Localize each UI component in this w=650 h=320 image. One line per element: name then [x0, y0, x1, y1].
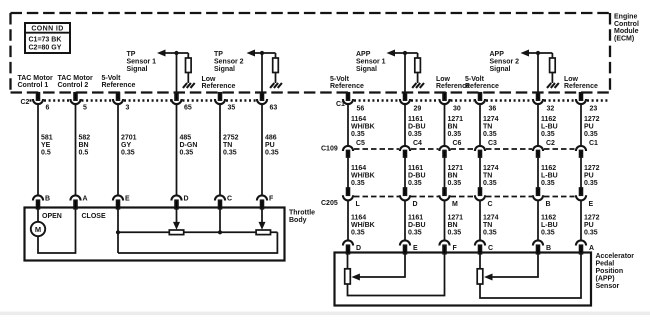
- APP sensor connector pin A: [576, 240, 594, 253]
- wire label 1272 PU 0.35 (lower): [584, 215, 600, 237]
- connector C205 pin D: [400, 188, 418, 208]
- svg-text:65: 65: [184, 105, 192, 112]
- svg-text:M: M: [452, 201, 458, 208]
- connector C205 pin C: [475, 188, 493, 208]
- connector C1 pin 32: [533, 93, 554, 113]
- svg-text:B: B: [45, 196, 50, 203]
- wire 1161 D-BU 0.35 segment C1 to C109: [404, 104, 406, 146]
- APP sensor label: [596, 253, 635, 290]
- label Low Reference (pin 23): [564, 76, 598, 90]
- throttle body connector pin E: [113, 195, 130, 208]
- svg-text:0.35: 0.35: [351, 131, 365, 138]
- connector C109 dashed line: [354, 148, 575, 150]
- svg-text:Sensor: Sensor: [596, 283, 620, 290]
- svg-text:(APP): (APP): [596, 275, 615, 282]
- svg-text:TN: TN: [483, 173, 492, 180]
- APP sensor connector pin D: [343, 240, 361, 253]
- svg-text:C: C: [488, 201, 493, 208]
- wire label 1162 L-BU 0.35 (upper): [541, 116, 558, 138]
- svg-text:CLOSE: CLOSE: [82, 213, 106, 220]
- svg-text:TP: TP: [127, 51, 136, 58]
- wire 1272 PU 0.35 segment C1 to C109: [580, 104, 582, 146]
- wire pin C into APP resistor 2: [479, 253, 481, 269]
- svg-text:OPEN: OPEN: [42, 213, 62, 220]
- svg-text:C2: C2: [21, 99, 30, 106]
- svg-text:1164: 1164: [351, 165, 366, 172]
- throttle body connector pin C: [215, 195, 232, 208]
- svg-text:Reference: Reference: [202, 83, 236, 90]
- svg-text:0.35: 0.35: [121, 150, 135, 157]
- wire label 1161 D-BU 0.35 (lower): [408, 215, 426, 237]
- svg-text:5-Volt: 5-Volt: [330, 76, 350, 83]
- wire label 1164 WH/BK 0.35 (middle): [351, 165, 375, 187]
- svg-text:0.35: 0.35: [180, 150, 194, 157]
- connector C1 pin 30: [439, 93, 460, 113]
- TP sensor 1 internal signal line with arrow: [157, 50, 188, 57]
- svg-text:1272: 1272: [584, 215, 600, 222]
- svg-text:36: 36: [489, 106, 497, 113]
- svg-text:D-BU: D-BU: [408, 124, 426, 131]
- svg-text:D: D: [356, 245, 361, 252]
- connector C1 pin 23: [576, 93, 597, 113]
- wire label 485 D-GN 0.35: [180, 135, 198, 157]
- svg-text:Control 1: Control 1: [18, 82, 49, 89]
- svg-text:2701: 2701: [121, 135, 137, 142]
- svg-text:YE: YE: [41, 142, 51, 149]
- svg-text:Low: Low: [564, 76, 579, 83]
- svg-text:Control: Control: [614, 21, 639, 28]
- connector C1 dotted line: [354, 99, 608, 101]
- svg-text:0.5: 0.5: [41, 150, 51, 157]
- svg-text:PU: PU: [584, 173, 594, 180]
- svg-text:PU: PU: [265, 142, 275, 149]
- wire 1161 D-BU 0.35 segment C109 to C205: [404, 157, 406, 188]
- wire pin D wiper with arrow (TP1): [173, 208, 180, 230]
- svg-text:PU: PU: [584, 222, 594, 229]
- svg-text:Signal: Signal: [127, 66, 148, 73]
- svg-text:Module: Module: [614, 28, 639, 35]
- wire 1162 L-BU 0.35 segment C109 to C205: [537, 157, 539, 188]
- svg-text:D-BU: D-BU: [408, 173, 426, 180]
- svg-text:C2: C2: [546, 140, 555, 147]
- wire 1164 WH/BK 0.35 segment C1 to C109: [347, 104, 349, 146]
- svg-text:0.35: 0.35: [483, 131, 497, 138]
- wire pin F wiper with arrow (TP2): [259, 208, 266, 230]
- wire 581 YE 0.5 (C2 to throttle body): [37, 104, 39, 195]
- svg-text:C1=73 BK: C1=73 BK: [29, 37, 62, 44]
- wire pin B wiper with arrow (APP2): [484, 253, 538, 281]
- APP sensor box: [335, 253, 592, 306]
- svg-text:L-BU: L-BU: [541, 222, 558, 229]
- wire label 581 YE 0.5: [41, 135, 53, 157]
- svg-text:3: 3: [126, 105, 130, 112]
- wire 1274 TN 0.35 segment C109 to C205: [479, 157, 481, 188]
- resistor APP sensor 2 pull-down: [550, 53, 556, 83]
- ground APP sensor 1: [412, 83, 424, 88]
- svg-text:0.35: 0.35: [448, 230, 462, 237]
- wire 1271 BN 0.35 segment C1 to C109: [444, 104, 446, 146]
- svg-text:C: C: [227, 196, 232, 203]
- svg-text:1162: 1162: [541, 165, 556, 172]
- TP track bus line: [118, 231, 277, 233]
- wire 2701 GY 0.35 (C2 to throttle body): [117, 104, 119, 195]
- wire label 1272 PU 0.35 (middle): [584, 165, 600, 187]
- label TAC Motor Control 2: [58, 75, 94, 89]
- svg-text:63: 63: [270, 105, 278, 112]
- svg-text:C109: C109: [321, 146, 338, 153]
- svg-text:1162: 1162: [541, 215, 556, 222]
- resistor APP sensor 2 track: [477, 269, 483, 284]
- svg-text:30: 30: [453, 106, 461, 113]
- wire APP sensor 2 signal to connector: [537, 53, 539, 94]
- svg-text:D: D: [413, 201, 418, 208]
- svg-text:56: 56: [357, 106, 365, 113]
- wire label 1274 TN 0.35 (lower): [483, 215, 499, 237]
- label APP Sensor 2 Signal: [490, 51, 520, 73]
- throttle body connector pin F: [257, 195, 274, 208]
- connector C109 pin C5: [343, 140, 365, 157]
- svg-text:Sensor 2: Sensor 2: [490, 58, 520, 65]
- svg-text:D-BU: D-BU: [408, 222, 426, 229]
- svg-text:B: B: [546, 245, 551, 252]
- throttle body connector pin A: [70, 195, 87, 208]
- svg-text:0.35: 0.35: [584, 230, 598, 237]
- resistor TP sensor 1 track: [169, 230, 183, 235]
- wire pin E wiper with arrow (APP1): [351, 253, 405, 281]
- svg-text:Low: Low: [436, 76, 451, 83]
- svg-text:E: E: [413, 245, 418, 252]
- connector C1 pin 29: [400, 93, 421, 113]
- wire 582 BN 0.5 (C2 to throttle body): [75, 104, 77, 195]
- svg-text:Reference: Reference: [465, 83, 499, 90]
- svg-text:TAC Motor: TAC Motor: [58, 75, 94, 82]
- svg-text:582: 582: [79, 135, 91, 142]
- wire APP resistor 2 to pin A: [480, 253, 581, 298]
- ECM name label: [614, 14, 639, 43]
- svg-text:1164: 1164: [351, 215, 366, 222]
- svg-text:0.35: 0.35: [541, 180, 555, 187]
- junction node APP sensor 1: [403, 51, 407, 55]
- wire label 1162 L-BU 0.35 (middle): [541, 165, 558, 187]
- svg-text:PU: PU: [584, 124, 594, 131]
- svg-text:WH/BK: WH/BK: [351, 173, 375, 180]
- label TP Sensor 1 Signal: [127, 51, 157, 73]
- svg-text:Position: Position: [596, 268, 624, 275]
- svg-text:0.35: 0.35: [584, 180, 598, 187]
- svg-text:WH/BK: WH/BK: [351, 222, 375, 229]
- svg-text:GY: GY: [121, 142, 131, 149]
- svg-text:6: 6: [46, 105, 50, 112]
- wire 1164 WH/BK 0.35 segment C205 to APP sensor: [347, 200, 349, 240]
- APP sensor connector pin E: [400, 240, 418, 253]
- wire 1274 TN 0.35 segment C1 to C109: [479, 104, 481, 146]
- svg-text:1161: 1161: [408, 116, 423, 123]
- svg-text:WH/BK: WH/BK: [351, 124, 375, 131]
- ECM dashed border (Engine Control Module outline): [11, 13, 611, 93]
- svg-text:32: 32: [547, 106, 555, 113]
- svg-text:0.35: 0.35: [483, 180, 497, 187]
- wire label 582 BN 0.5: [79, 135, 91, 157]
- resistor APP sensor 1 pull-down: [415, 53, 421, 83]
- junction node TP sensor 1: [174, 51, 178, 55]
- wire label 1274 TN 0.35 (upper): [483, 116, 499, 138]
- svg-text:1161: 1161: [408, 165, 423, 172]
- connector C109 pin C2: [533, 140, 555, 157]
- svg-text:Low: Low: [202, 76, 217, 83]
- wire TP sensor 1 signal to connector: [176, 53, 178, 94]
- wire TP sensor 2 signal to connector: [261, 53, 263, 94]
- throttle body connector pin B: [33, 195, 50, 208]
- label 5-Volt Reference (pin 36): [465, 76, 499, 90]
- ground APP sensor 2: [547, 83, 559, 88]
- TP return loop: [118, 232, 277, 253]
- svg-text:TN: TN: [483, 222, 492, 229]
- wire label 1164 WH/BK 0.35 (upper): [351, 116, 375, 138]
- svg-text:1271: 1271: [448, 116, 464, 123]
- label TP Sensor 2 Signal: [214, 51, 244, 73]
- connector C2 pin 5: [70, 93, 87, 112]
- svg-text:1272: 1272: [584, 165, 600, 172]
- wire label 1161 D-BU 0.35 (upper): [408, 116, 426, 138]
- svg-text:0.35: 0.35: [351, 180, 365, 187]
- svg-text:Accelerator: Accelerator: [596, 253, 635, 260]
- APP sensor 2 internal signal line with arrow: [521, 50, 553, 57]
- wire 1161 D-BU 0.35 segment C205 to APP sensor: [404, 200, 406, 240]
- wire pin D into APP resistor 1: [347, 253, 349, 269]
- junction node TP sensor 2: [260, 51, 264, 55]
- label 5-Volt Reference (pin 3): [102, 75, 136, 89]
- connector C205 pin M: [439, 188, 458, 208]
- svg-text:Reference: Reference: [102, 82, 136, 89]
- connector C2 pin 63: [257, 93, 277, 112]
- svg-text:L-BU: L-BU: [541, 124, 558, 131]
- svg-text:APP: APP: [490, 51, 505, 58]
- svg-text:0.5: 0.5: [79, 150, 89, 157]
- APP sensor connector pin C: [475, 240, 493, 253]
- svg-text:TN: TN: [223, 142, 232, 149]
- svg-text:35: 35: [228, 105, 236, 112]
- svg-text:Engine: Engine: [614, 14, 637, 21]
- svg-text:0.35: 0.35: [541, 230, 555, 237]
- svg-text:C6: C6: [453, 140, 462, 147]
- wire 1162 L-BU 0.35 segment C1 to C109: [537, 104, 539, 146]
- svg-text:(ECM): (ECM): [614, 35, 634, 42]
- wire label 2701 GY 0.35: [121, 135, 137, 157]
- svg-text:BN: BN: [448, 173, 458, 180]
- svg-text:1272: 1272: [584, 116, 600, 123]
- connector C1 pin 56: [343, 93, 364, 113]
- label APP Sensor 1 Signal: [356, 51, 386, 73]
- wire label 1164 WH/BK 0.35 (lower): [351, 215, 375, 237]
- connector C205 pin B: [533, 188, 551, 208]
- APP sensor 1 internal signal line with arrow: [387, 50, 418, 57]
- svg-text:Reference: Reference: [330, 83, 364, 90]
- wire label 1271 BN 0.35 (middle): [448, 165, 464, 187]
- svg-text:C: C: [488, 245, 493, 252]
- wire 1272 PU 0.35 segment C109 to C205: [580, 157, 582, 188]
- throttle body connector pin D: [171, 195, 188, 208]
- connector C2 dotted line: [30, 99, 257, 101]
- svg-text:1274: 1274: [483, 116, 499, 123]
- svg-text:F: F: [453, 245, 458, 252]
- svg-text:Sensor 1: Sensor 1: [127, 58, 157, 65]
- wire pin B to motor: [37, 208, 39, 222]
- wire 1271 BN 0.35 segment C205 to APP sensor: [444, 200, 446, 240]
- wire pin E (5V ref) into throttle: [117, 208, 119, 253]
- svg-text:Pedal: Pedal: [596, 260, 615, 267]
- CONN ID table: [25, 23, 70, 53]
- svg-text:485: 485: [180, 135, 192, 142]
- svg-text:1274: 1274: [483, 215, 499, 222]
- wire APP resistor 1 to pin F: [348, 253, 445, 296]
- connector C2 pin 3: [113, 93, 130, 112]
- throttle body label: [289, 210, 315, 225]
- wire label 1161 D-BU 0.35 (middle): [408, 165, 426, 187]
- ground TP sensor 2: [270, 83, 282, 88]
- label 5-Volt Reference (pin 56): [330, 76, 364, 90]
- wire label 2752 TN 0.35: [223, 135, 239, 157]
- svg-text:Reference: Reference: [564, 83, 598, 90]
- svg-text:1274: 1274: [483, 165, 499, 172]
- wire 485 D-GN 0.35 (C2 to throttle body): [176, 104, 178, 195]
- svg-text:0.35: 0.35: [408, 131, 422, 138]
- svg-text:1162: 1162: [541, 116, 556, 123]
- svg-text:C3: C3: [488, 140, 497, 147]
- svg-text:5-Volt: 5-Volt: [102, 75, 122, 82]
- connector C109 pin C6: [439, 140, 461, 157]
- APP sensor connector pin F: [439, 240, 457, 253]
- wire label 1274 TN 0.35 (middle): [483, 165, 499, 187]
- svg-text:0.35: 0.35: [408, 230, 422, 237]
- svg-text:5: 5: [83, 105, 87, 112]
- svg-text:M: M: [35, 225, 41, 234]
- connector C1 pin 36: [475, 93, 496, 113]
- svg-text:1164: 1164: [351, 116, 366, 123]
- svg-text:E: E: [125, 196, 130, 203]
- svg-text:TAC Motor: TAC Motor: [18, 75, 54, 82]
- svg-text:BN: BN: [79, 142, 89, 149]
- svg-text:TP: TP: [214, 51, 223, 58]
- label Low Reference (pin 35): [202, 76, 236, 90]
- svg-text:Control 2: Control 2: [58, 82, 89, 89]
- label TAC Motor Control 1: [18, 75, 54, 89]
- label Low Reference (pin 30): [436, 76, 470, 90]
- connector C205 pin E: [576, 188, 594, 208]
- svg-text:A: A: [83, 196, 88, 203]
- svg-text:1271: 1271: [448, 215, 464, 222]
- svg-text:5-Volt: 5-Volt: [465, 76, 485, 83]
- wire label 1162 L-BU 0.35 (lower): [541, 215, 558, 237]
- svg-text:E: E: [589, 201, 594, 208]
- svg-text:Signal: Signal: [214, 66, 235, 73]
- connector C109 pin C4: [400, 140, 422, 157]
- wire label 486 PU 0.35: [265, 135, 279, 157]
- connector C109 pin C1: [576, 140, 598, 157]
- svg-text:C2=80 GY: C2=80 GY: [29, 45, 62, 52]
- svg-text:0.35: 0.35: [483, 230, 497, 237]
- svg-text:L-BU: L-BU: [541, 173, 558, 180]
- svg-text:TN: TN: [483, 124, 492, 131]
- svg-text:C5: C5: [356, 140, 365, 147]
- svg-text:D: D: [184, 196, 189, 203]
- svg-text:B: B: [546, 201, 551, 208]
- svg-text:BN: BN: [448, 222, 458, 229]
- svg-text:L: L: [356, 201, 361, 208]
- svg-text:CONN ID: CONN ID: [31, 26, 63, 33]
- svg-text:Signal: Signal: [356, 66, 377, 73]
- svg-text:486: 486: [265, 135, 277, 142]
- svg-text:BN: BN: [448, 124, 458, 131]
- svg-text:0.35: 0.35: [351, 230, 365, 237]
- wire label 1272 PU 0.35 (upper): [584, 116, 600, 138]
- svg-text:Signal: Signal: [490, 66, 511, 73]
- APP sensor connector pin B: [533, 240, 551, 253]
- resistor TP sensor 2 track: [256, 230, 270, 235]
- node C junction: [218, 230, 222, 234]
- svg-text:Body: Body: [289, 217, 307, 224]
- wire label 1271 BN 0.35 (upper): [448, 116, 464, 138]
- svg-text:Sensor 1: Sensor 1: [356, 58, 386, 65]
- svg-text:2752: 2752: [223, 135, 239, 142]
- svg-text:1161: 1161: [408, 215, 423, 222]
- svg-text:0.35: 0.35: [448, 180, 462, 187]
- resistor APP sensor 1 track: [345, 269, 351, 284]
- wire APP sensor 1 signal to connector: [404, 53, 406, 94]
- connector C2 pin 65: [171, 93, 191, 112]
- resistor TP sensor 2 pull-down: [273, 53, 279, 83]
- svg-text:0.35: 0.35: [265, 150, 279, 157]
- connector C205 dashed line: [354, 196, 575, 198]
- node E junction: [116, 230, 120, 234]
- svg-text:D-GN: D-GN: [180, 142, 198, 149]
- wire 486 PU 0.35 (C2 to throttle body): [261, 104, 263, 195]
- motor M: [31, 222, 45, 236]
- wire 1162 L-BU 0.35 segment C205 to APP sensor: [537, 200, 539, 240]
- wire motor to pin A: [38, 208, 76, 253]
- svg-text:581: 581: [41, 135, 53, 142]
- svg-text:0.35: 0.35: [448, 131, 462, 138]
- svg-text:C1: C1: [589, 140, 598, 147]
- wire label 1271 BN 0.35 (lower): [448, 215, 464, 237]
- svg-text:Sensor 2: Sensor 2: [214, 58, 244, 65]
- connector C109 pin C3: [475, 140, 497, 157]
- ground TP sensor 1: [183, 83, 195, 88]
- svg-text:1271: 1271: [448, 165, 464, 172]
- TP sensor 2 internal signal line with arrow: [247, 50, 276, 57]
- wire 2752 TN 0.35 (C2 to throttle body): [219, 104, 221, 195]
- svg-text:Throttle: Throttle: [289, 210, 315, 217]
- svg-text:23: 23: [590, 106, 598, 113]
- svg-text:APP: APP: [356, 51, 371, 58]
- junction node APP sensor 2: [536, 51, 540, 55]
- svg-text:29: 29: [414, 106, 422, 113]
- svg-text:0.35: 0.35: [408, 180, 422, 187]
- connector C2 pin 35: [215, 93, 235, 112]
- wire 1274 TN 0.35 segment C205 to APP sensor: [479, 200, 481, 240]
- throttle body box: [25, 208, 285, 261]
- wire 1271 BN 0.35 segment C109 to C205: [444, 157, 446, 188]
- wire pin C low reference: [219, 208, 221, 232]
- svg-text:0.35: 0.35: [584, 131, 598, 138]
- svg-text:C4: C4: [413, 140, 422, 147]
- wire 1164 WH/BK 0.35 segment C109 to C205: [347, 157, 349, 188]
- resistor TP sensor 1 pull-down: [186, 53, 192, 83]
- svg-text:F: F: [269, 196, 274, 203]
- connector C205 pin L: [343, 188, 361, 208]
- svg-text:C205: C205: [321, 200, 338, 207]
- svg-text:0.35: 0.35: [223, 150, 237, 157]
- wire 1272 PU 0.35 segment C205 to APP sensor: [580, 200, 582, 240]
